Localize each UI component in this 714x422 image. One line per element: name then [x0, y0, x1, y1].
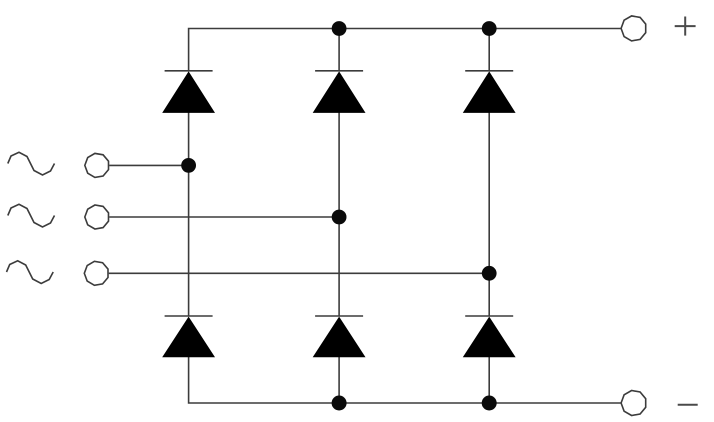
wire column 3 mid segment — [488, 112, 490, 316]
junction phase C column 3 — [482, 266, 497, 281]
wire top positive bus — [189, 29, 621, 71]
label minus — [678, 404, 698, 406]
terminal negative output — [621, 391, 646, 416]
wire column 2 bottom segment — [338, 357, 340, 403]
diode D1 — [163, 71, 214, 113]
diode D4 — [314, 316, 365, 357]
wire phase B — [109, 216, 339, 218]
wire column 1 mid segment — [188, 112, 190, 316]
terminal phase C — [84, 261, 108, 285]
ac source phase C — [7, 261, 54, 284]
junction top bus column 3 — [482, 21, 497, 36]
junction phase A column 1 — [181, 158, 196, 173]
wire phase C — [109, 272, 490, 274]
wire bottom negative bus — [189, 357, 621, 403]
ac source phase B — [8, 204, 55, 227]
wire column 3 top segment — [488, 29, 490, 71]
diode D5 — [464, 71, 515, 113]
terminal phase A — [85, 153, 109, 177]
label plus — [675, 17, 696, 36]
wire column 2 top segment — [338, 29, 340, 71]
wire phase A — [109, 164, 188, 166]
junction phase B column 2 — [332, 210, 347, 225]
diode D2 — [163, 316, 214, 357]
diode D3 — [314, 71, 365, 113]
junction bottom bus column 3 — [482, 396, 497, 411]
wire column 3 bottom segment — [488, 357, 490, 403]
terminal phase B — [85, 205, 109, 229]
junction bottom bus column 2 — [332, 396, 347, 411]
diode D6 — [464, 316, 515, 357]
ac source phase A — [8, 152, 55, 175]
wire column 2 mid segment — [338, 112, 340, 316]
terminal positive output — [621, 16, 646, 41]
junction top bus column 2 — [332, 21, 347, 36]
